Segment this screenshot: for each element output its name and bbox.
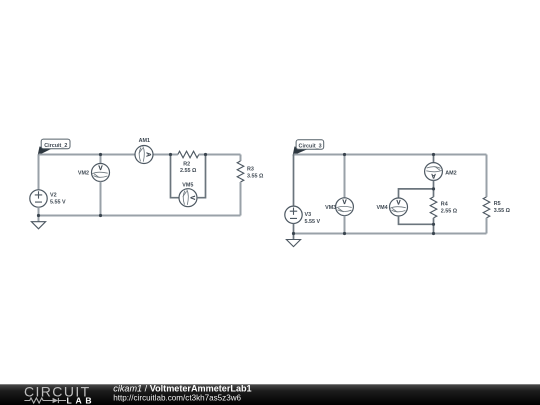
svg-text:A: A <box>431 172 436 179</box>
wire VM2 branch bottom <box>100 182 102 216</box>
svg-text:5.55 V: 5.55 V <box>50 200 66 206</box>
svg-text:Circuit_3: Circuit_3 <box>299 144 322 150</box>
wire V3 branch bottom <box>293 224 295 234</box>
wire V3 branch top <box>293 155 295 207</box>
ground (Circuit_3) <box>286 234 300 247</box>
wire top bus R2 right stub to R3 corner <box>199 154 241 156</box>
svg-text:cikam1 / VoltmeterAmmeterLab1: cikam1 / VoltmeterAmmeterLab1 <box>113 384 251 394</box>
wire R5 bottom corner <box>486 218 488 234</box>
svg-text:R4: R4 <box>441 201 448 207</box>
wire V2 branch top <box>38 155 40 190</box>
flag Circuit_3 <box>293 140 324 156</box>
wire VM4 loop top <box>399 189 434 198</box>
svg-text:3.55 Ω: 3.55 Ω <box>247 174 264 180</box>
voltmeter VM5 <box>179 182 197 206</box>
voltmeter VM2 <box>78 164 110 182</box>
wire top bus (Circuit_3) <box>294 154 487 156</box>
svg-text:VM3: VM3 <box>325 205 336 211</box>
node junction V2 ground <box>37 214 40 217</box>
wire top bus AM1 to R2 left stub <box>153 154 178 156</box>
wire V2 branch bottom <box>38 207 40 215</box>
svg-text:VM5: VM5 <box>182 182 193 188</box>
ammeter AM1 <box>135 138 153 163</box>
footer line 2: url <box>113 393 241 402</box>
svg-text:3.55 Ω: 3.55 Ω <box>494 208 511 214</box>
resistor R2 <box>178 151 199 174</box>
svg-text:VM4: VM4 <box>377 205 388 211</box>
ground (Circuit_2) <box>31 216 45 229</box>
wire bottom bus (Circuit_2) <box>39 215 241 217</box>
svg-text:2.55 Ω: 2.55 Ω <box>180 168 197 174</box>
resistor R3 <box>237 161 264 182</box>
node junction VM4 bottom <box>432 223 435 226</box>
footer bar <box>0 384 540 405</box>
wire VM3 branch top <box>344 155 346 198</box>
node junction V3 ground <box>292 232 295 235</box>
wire R3 branch bottom <box>240 182 242 216</box>
voltmeter VM3 <box>325 198 353 216</box>
svg-text:A: A <box>145 152 152 157</box>
svg-text:AM1: AM1 <box>139 138 150 144</box>
svg-text:LAB: LAB <box>67 395 96 405</box>
svg-text:R3: R3 <box>247 166 254 172</box>
svg-text:Circuit_2: Circuit_2 <box>44 143 67 149</box>
svg-text:V: V <box>98 165 103 172</box>
svg-text:V: V <box>189 196 196 201</box>
flag Circuit_2 <box>38 139 70 156</box>
ammeter AM2 <box>425 163 457 181</box>
svg-text:VM2: VM2 <box>78 170 89 176</box>
svg-text:R5: R5 <box>494 201 501 207</box>
svg-text:V3: V3 <box>305 212 312 218</box>
wire VM4 loop bottom <box>399 216 434 224</box>
svg-text:R2: R2 <box>183 162 190 168</box>
voltmeter VM4 <box>377 198 408 216</box>
node junction AM2 top <box>432 153 435 156</box>
wire VM2 branch top <box>100 155 102 164</box>
resistor R4 <box>430 197 458 218</box>
svg-text:V: V <box>342 199 347 206</box>
node junction R2 left <box>169 153 172 156</box>
CircuitLab logo wordmark CIRCUIT <box>24 384 91 400</box>
node junction R4 bottom <box>432 232 435 235</box>
svg-text:AM2: AM2 <box>445 170 456 176</box>
wire VM5 loop right <box>197 155 206 198</box>
svg-text:5.55 V: 5.55 V <box>305 219 321 225</box>
wire VM5 loop left <box>171 155 180 198</box>
node junction VM2 bottom <box>99 214 102 217</box>
wire AM2 branch top <box>433 155 435 163</box>
wire bottom bus (Circuit_3) <box>294 233 487 235</box>
node junction VM3 top <box>343 153 346 156</box>
CircuitLab logo resistor-diode glyph and LAB <box>24 395 95 405</box>
node junction R2 right <box>204 153 207 156</box>
svg-text:http://circuitlab.com/ct3kh7as: http://circuitlab.com/ct3kh7as5z3w6 <box>113 393 241 402</box>
wire AM2 to R4 <box>433 180 435 197</box>
node junction VM3 bottom <box>343 232 346 235</box>
svg-text:V2: V2 <box>50 193 57 199</box>
svg-text:2.55 Ω: 2.55 Ω <box>441 208 458 214</box>
svg-text:V: V <box>396 200 401 207</box>
node junction VM4 top <box>432 187 435 190</box>
voltage source V2 <box>30 190 66 207</box>
wire VM3 branch bottom <box>344 216 346 234</box>
footer line 1: user / title <box>113 384 251 394</box>
wire R5 branch <box>486 155 488 197</box>
wire R3 branch top <box>240 155 242 162</box>
node junction VM2 top <box>99 153 102 156</box>
resistor R5 <box>483 197 510 218</box>
wire R4 bottom to bus <box>433 218 435 234</box>
wire top bus left segment (corner to AM1) <box>39 154 136 156</box>
voltage source V3 <box>285 206 321 225</box>
